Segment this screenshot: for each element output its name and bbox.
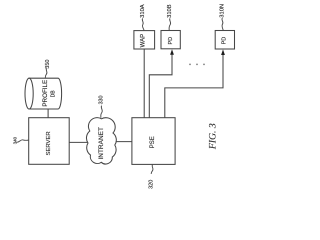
WAP box bbox=[134, 31, 155, 49]
arrowhead into PD 310B bbox=[170, 49, 174, 55]
svg-text:320: 320 bbox=[148, 180, 154, 189]
wire cylinder to server bbox=[47, 109, 49, 118]
svg-text:INTRANET: INTRANET bbox=[98, 127, 105, 160]
server box bbox=[29, 118, 69, 165]
svg-text:PROFILE: PROFILE bbox=[42, 80, 49, 107]
svg-text:FIG. 3: FIG. 3 bbox=[207, 123, 218, 150]
svg-text:WAP: WAP bbox=[140, 34, 146, 47]
PD box 310N bbox=[215, 31, 234, 50]
leader squiggle 310B bbox=[169, 18, 171, 30]
PSE box bbox=[132, 118, 175, 165]
leader squiggle 320 bbox=[151, 165, 153, 174]
intranet cloud bbox=[86, 118, 116, 164]
cylinder PROFILE DB bbox=[25, 78, 62, 109]
svg-text:PD: PD bbox=[221, 37, 227, 45]
svg-text:310B: 310B bbox=[167, 4, 173, 18]
leader squiggle 310N bbox=[222, 18, 223, 30]
svg-text:SERVER: SERVER bbox=[46, 131, 52, 155]
svg-text:310N: 310N bbox=[220, 4, 226, 18]
wire server to intranet cloud bbox=[69, 141, 92, 143]
wire PSE to PD 310N bbox=[165, 54, 223, 118]
arrowhead into PD 310N bbox=[221, 49, 225, 55]
svg-text:330: 330 bbox=[99, 96, 105, 105]
svg-text:350: 350 bbox=[45, 60, 51, 69]
ellipsis dots bbox=[189, 64, 205, 66]
wire PSE to PD 310B bbox=[149, 54, 172, 118]
svg-text:310A: 310A bbox=[140, 4, 146, 18]
wire WAP to PSE bbox=[143, 49, 145, 118]
svg-text:PD: PD bbox=[168, 37, 174, 45]
leader squiggle 340 bbox=[16, 140, 28, 142]
leader squiggle 310A bbox=[142, 18, 144, 30]
wire intranet cloud to PSE bbox=[111, 141, 132, 143]
PD box 310B bbox=[161, 31, 180, 49]
leader squiggle 350 bbox=[45, 68, 47, 78]
svg-text:PSE: PSE bbox=[150, 136, 156, 148]
svg-text:DB: DB bbox=[50, 90, 56, 98]
svg-text:340: 340 bbox=[12, 136, 17, 144]
leader squiggle 330 bbox=[101, 106, 103, 118]
